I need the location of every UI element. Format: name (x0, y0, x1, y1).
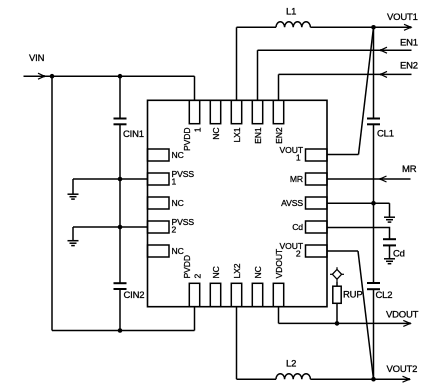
pin MR (right 2) (306, 173, 328, 185)
svg-text:EN1: EN1 (253, 127, 263, 144)
wire VOUT2 output with arrow (374, 376, 411, 382)
wire PVSS1 net (73, 178, 148, 180)
svg-text:VIN: VIN (29, 53, 45, 64)
pin NC (bottom 4) (252, 283, 262, 306)
svg-text:LX1: LX1 (232, 127, 242, 142)
wire CIN2 top lead (119, 227, 121, 283)
wire EN2 riser (278, 74, 280, 100)
wire VOUT2 pin lead (327, 250, 358, 252)
wire LX1 riser (236, 27, 238, 100)
wire CL1 bottom lead (373, 125, 375, 204)
svg-text:VDOUT: VDOUT (274, 248, 284, 278)
wire LX2 riser (236, 307, 238, 380)
svg-text:AVSS: AVSS (281, 198, 303, 208)
node CIN2/bottom bus junction (118, 328, 123, 333)
wire PVSS1 to PVSS2 (119, 179, 121, 227)
pin LX1 (top 3) (231, 100, 241, 123)
node VIN junction (50, 74, 55, 79)
pin NC (left 5) (148, 245, 170, 257)
pin VOUT1 (right 1) (306, 149, 328, 161)
svg-text:L2: L2 (286, 358, 296, 369)
pin NC (left 1) (148, 149, 170, 161)
svg-text:Cd: Cd (393, 249, 405, 260)
pin NC (bottom 2) (210, 283, 220, 306)
svg-text:NC: NC (172, 246, 184, 256)
pin PVSS2 (left 4) (148, 221, 170, 233)
wire EN2 net with arrow (279, 71, 412, 77)
svg-text:PVDD: PVDD (182, 255, 192, 278)
wire slant VOUT1 pin to node (359, 27, 374, 154)
svg-text:RUP: RUP (343, 290, 362, 301)
wire PVDD2 riser (194, 307, 196, 331)
wire CL2 bottom lead (373, 289, 375, 379)
pin PVSS1 (left 2) (148, 173, 170, 185)
svg-text:MR: MR (290, 174, 303, 184)
capacitor Cd (383, 239, 396, 245)
wire CIN1 top lead (119, 76, 121, 118)
wire RUP bottom lead (336, 303, 338, 323)
pin VOUT2 (right 5) (306, 245, 328, 257)
wire VDOUT riser (278, 307, 280, 324)
svg-text:1: 1 (296, 153, 301, 163)
node CIN1/VIN junction (118, 74, 123, 79)
wire EN1 riser (257, 50, 259, 100)
power symbol RUP top (330, 267, 344, 281)
pin PVDD1 (top 1) (189, 100, 199, 123)
svg-text:CL2: CL2 (376, 290, 393, 301)
node CIN2/PVSS2 junction (118, 225, 123, 230)
wire PVDD1 riser (194, 76, 196, 100)
wire left bus vertical (51, 76, 53, 330)
ground Cd (384, 246, 395, 264)
wire CL1 top lead (373, 27, 375, 118)
node CIN1/PVSS1 junction (118, 177, 123, 182)
svg-text:CL1: CL1 (377, 129, 394, 140)
svg-text:1: 1 (193, 127, 203, 132)
pin PVDD2 (bottom 1) (189, 283, 199, 306)
svg-text:EN2: EN2 (274, 127, 284, 144)
wire LX2 to L2 (237, 378, 277, 380)
wire L1 to VOUT1 node (310, 26, 373, 28)
capacitor CIN1 (114, 119, 127, 125)
node AVSS/CL1 junction (371, 201, 376, 206)
wire CIN2 bottom lead (119, 289, 121, 331)
svg-text:L1: L1 (286, 7, 296, 18)
wire slant VOUT2 pin to node (358, 251, 374, 379)
wire CIN1 bottom lead (119, 125, 121, 180)
svg-text:PVDD: PVDD (182, 128, 192, 151)
svg-text:EN1: EN1 (400, 38, 418, 49)
wire VIN horizontal (24, 75, 195, 77)
svg-text:VDOUT: VDOUT (386, 309, 419, 320)
svg-text:MR: MR (402, 164, 417, 175)
wire AVSS node to CL2 (373, 203, 375, 283)
pin LX2 (bottom 3) (231, 283, 241, 306)
wire VOUT1 output with arrow (374, 24, 412, 30)
pin NC (left 3) (148, 197, 170, 209)
arrow VIN input (38, 73, 45, 79)
svg-text:2: 2 (296, 249, 301, 259)
wire L2 to VOUT2 node (310, 378, 373, 380)
capacitor CL1 (367, 119, 380, 125)
wire PVSS2 net (73, 226, 148, 228)
ground PVSS2 (68, 227, 79, 246)
svg-text:NC: NC (172, 198, 184, 208)
ground PVSS1 (68, 179, 79, 199)
op-amp U1 (148, 100, 328, 306)
svg-text:2: 2 (172, 225, 177, 235)
svg-text:1: 1 (172, 177, 177, 187)
pin NC (top 2) (210, 100, 220, 123)
svg-text:NC: NC (211, 128, 221, 140)
svg-text:Cd: Cd (292, 222, 303, 232)
wire VOUT1 pin lead (327, 154, 359, 156)
capacitor CIN2 (114, 283, 127, 289)
svg-text:VOUT1: VOUT1 (387, 12, 418, 23)
wire LX1 to L1 (237, 26, 277, 28)
svg-text:2: 2 (193, 274, 203, 279)
node RUP/VDOUT junction (335, 321, 340, 326)
node VOUT2 junction (371, 377, 376, 382)
wire MR net with arrow (327, 176, 411, 182)
resistor RUP (333, 286, 341, 303)
svg-text:EN2: EN2 (400, 61, 418, 72)
svg-text:CIN1: CIN1 (123, 129, 144, 140)
wire VDOUT net with arrow (279, 320, 411, 326)
wire AVSS net (327, 202, 390, 204)
wire Cd pin lead (327, 228, 390, 240)
pin EN2 (top 5) (273, 100, 283, 123)
svg-text:NC: NC (253, 266, 263, 278)
svg-text:LX2: LX2 (232, 263, 242, 278)
wire RUP top lead (336, 282, 338, 287)
svg-text:NC: NC (211, 266, 221, 278)
svg-text:CIN2: CIN2 (124, 290, 145, 301)
pin AVSS (right 3) (306, 197, 328, 209)
svg-text:VOUT2: VOUT2 (387, 364, 418, 375)
capacitor CL2 (367, 283, 380, 289)
wire EN1 net with arrow (258, 47, 412, 53)
inductor L2 (276, 374, 310, 380)
inductor L1 (276, 22, 310, 28)
pin Cd (right 4) (306, 221, 328, 233)
pin EN1 (top 4) (252, 100, 262, 123)
pin VDOUT (bottom 5) (273, 283, 283, 306)
ground AVSS (384, 203, 395, 222)
node VOUT1 junction (371, 25, 376, 30)
wire bottom ground bus (52, 330, 195, 332)
